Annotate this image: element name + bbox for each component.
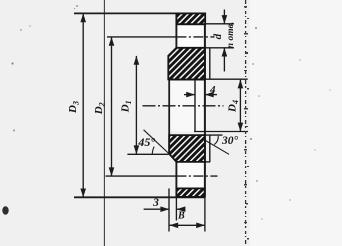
svg-text:3: 3	[152, 197, 159, 209]
svg-text:B: B	[177, 211, 185, 222]
svg-text:45°: 45°	[137, 135, 155, 149]
svg-text:n отв.: n отв.	[226, 22, 236, 48]
svg-text:30°: 30°	[221, 135, 239, 147]
svg-text:d: d	[212, 33, 224, 39]
svg-text:4: 4	[209, 84, 216, 96]
